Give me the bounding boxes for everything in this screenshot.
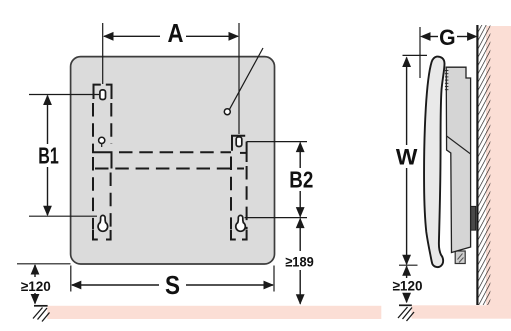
svg-text:W: W	[396, 144, 418, 169]
svg-text:≥120: ≥120	[21, 278, 51, 294]
svg-text:A: A	[168, 20, 184, 48]
svg-text:S: S	[165, 272, 180, 300]
svg-text:B1: B1	[38, 143, 59, 169]
svg-text:≥189: ≥189	[285, 253, 314, 269]
svg-text:B2: B2	[289, 167, 313, 193]
svg-text:G: G	[439, 25, 456, 50]
svg-text:≥120: ≥120	[393, 277, 423, 293]
